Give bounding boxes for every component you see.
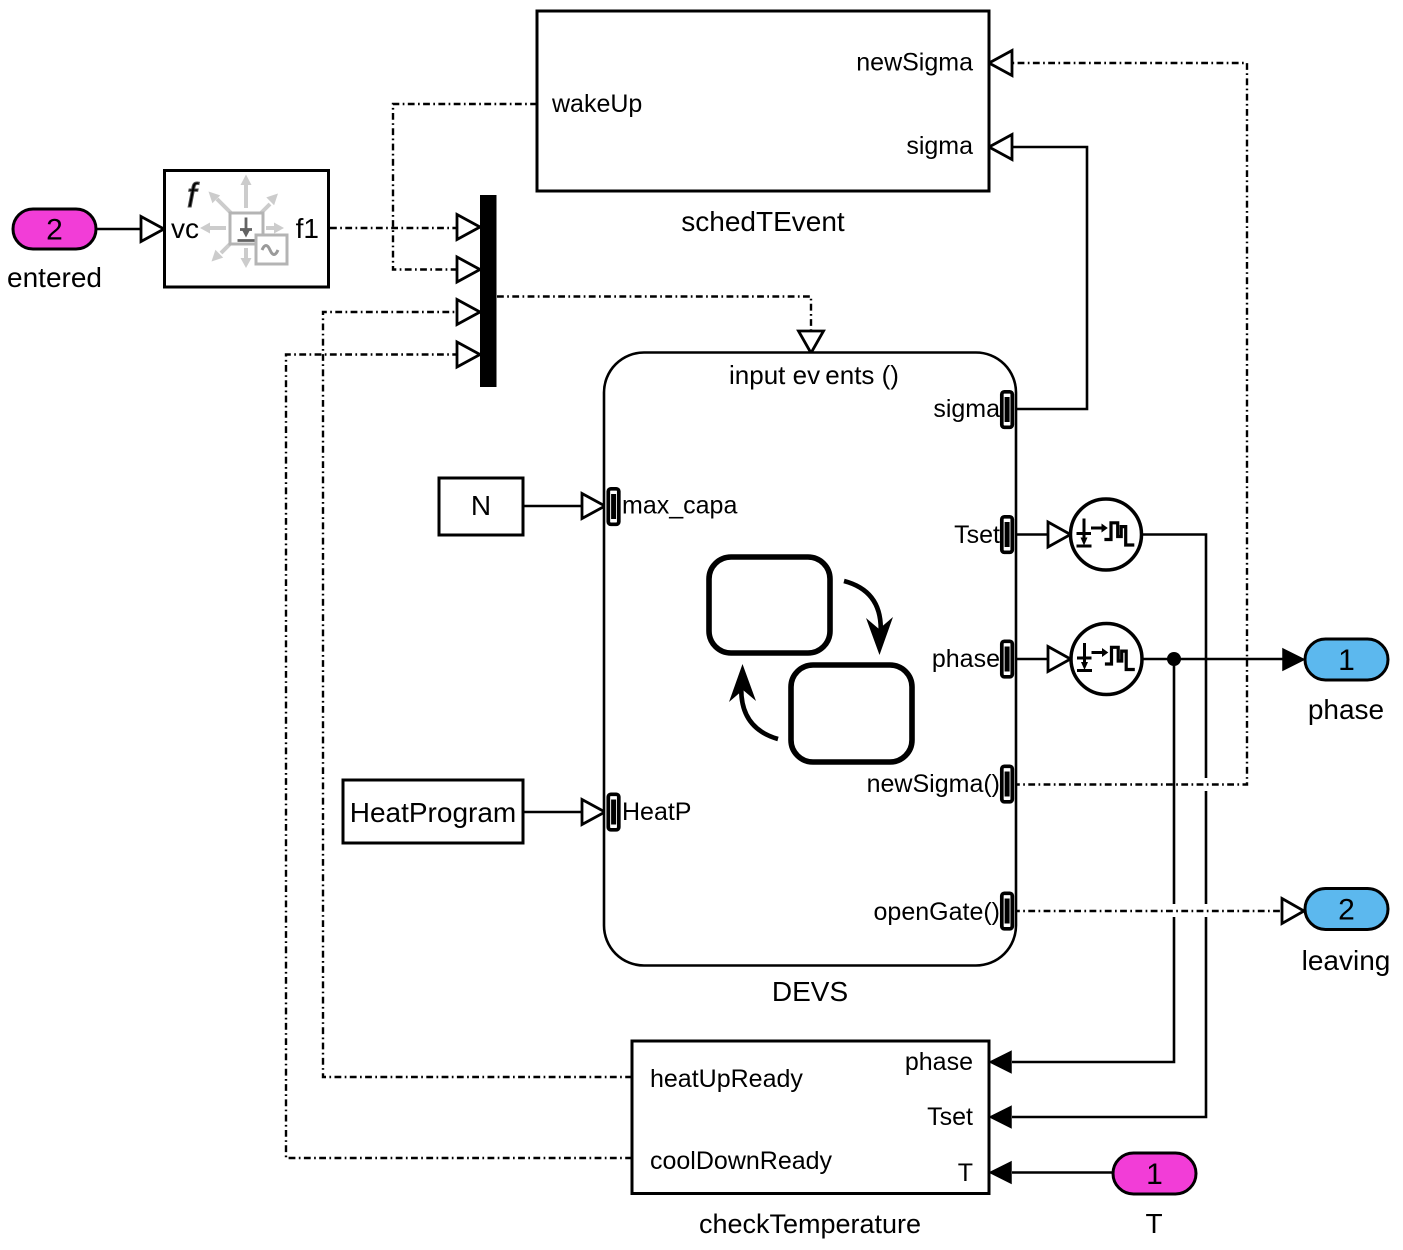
svg-text:DEVS: DEVS: [772, 976, 848, 1007]
svg-text:wakeUp: wakeUp: [551, 90, 642, 118]
svg-text:heatUpReady: heatUpReady: [650, 1065, 803, 1093]
svg-text:phase: phase: [1308, 694, 1384, 725]
svg-text:sigma: sigma: [906, 132, 973, 160]
svg-text:T: T: [958, 1159, 973, 1187]
svg-text:Tset: Tset: [954, 521, 1000, 549]
svg-text:2: 2: [46, 214, 63, 247]
svg-text:openGate(): openGate(): [874, 898, 1000, 926]
svg-text:schedTEvent: schedTEvent: [681, 206, 845, 237]
svg-text:phase: phase: [905, 1048, 973, 1076]
svg-text:T: T: [1145, 1208, 1162, 1239]
svg-text:sigma: sigma: [933, 395, 1000, 423]
svg-text:N: N: [471, 490, 491, 521]
svg-text:max_capa: max_capa: [622, 492, 737, 520]
svg-text:f1: f1: [296, 213, 319, 244]
svg-text:leaving: leaving: [1302, 945, 1391, 976]
svg-text:checkTemperature: checkTemperature: [699, 1209, 921, 1239]
svg-text:HeatProgram: HeatProgram: [350, 797, 517, 828]
svg-text:Tset: Tset: [927, 1103, 973, 1131]
svg-text:vc: vc: [171, 213, 199, 244]
svg-text:newSigma: newSigma: [856, 49, 973, 77]
svg-text:coolDownReady: coolDownReady: [650, 1147, 833, 1175]
svg-text:newSigma(): newSigma(): [867, 770, 1000, 798]
svg-text:2: 2: [1338, 894, 1355, 927]
svg-text:HeatP: HeatP: [622, 798, 691, 826]
svg-text:entered: entered: [7, 262, 102, 293]
svg-text:phase: phase: [932, 645, 1000, 673]
svg-text:1: 1: [1146, 1158, 1163, 1191]
svg-text:input ev ents (): input ev ents (): [729, 360, 899, 390]
svg-text:1: 1: [1338, 644, 1355, 677]
